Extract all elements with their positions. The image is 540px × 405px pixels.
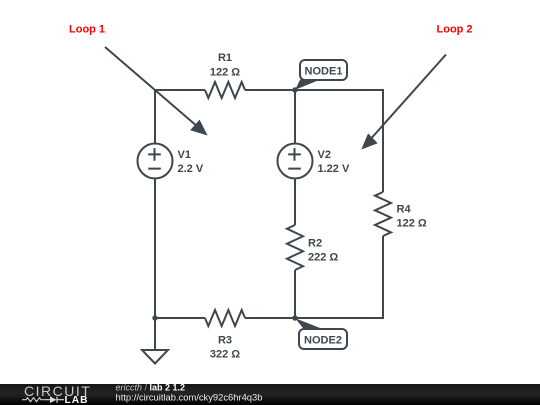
svg-text:222 Ω: 222 Ω [308,252,338,264]
annotation Loop 1 arrow [105,47,208,136]
resistor R2 [287,225,338,270]
annotation Loop 2 arrow [361,55,446,150]
node junction dot NODE2 [292,315,297,320]
wire top-right segment + right upper [245,90,383,192]
svg-text:R3: R3 [218,335,232,347]
footer bar [0,384,540,405]
wire bottom-left segment + left lower [155,179,205,319]
node NODE1 callout [295,60,347,90]
svg-text:122 Ω: 122 Ω [397,218,427,230]
node junction dot at ground [152,315,157,320]
svg-text:Loop 2: Loop 2 [437,24,473,36]
wire middle vertical lower [294,270,296,318]
resistor R4 [375,192,427,236]
voltage source V2 [278,144,350,179]
node NODE2 callout [295,318,347,349]
svg-text:R1: R1 [218,52,232,64]
footer CircuitLab logo wordmark [22,383,91,405]
node junction dot NODE1 [292,87,297,92]
svg-text:R4: R4 [397,204,412,216]
logo diode [46,397,64,403]
wire left upper + top-left segment [155,90,205,144]
ground [142,350,168,364]
svg-text:322 Ω: 322 Ω [210,349,240,361]
wire ground stub [154,318,156,350]
resistor R3 [205,310,245,361]
svg-text:http://circuitlab.com/cky92c6h: http://circuitlab.com/cky92c6hr4q3b [116,392,263,403]
resistor R1 [205,52,245,98]
svg-text:2.2 V: 2.2 V [178,163,204,175]
wire middle vertical upper [294,90,296,144]
svg-text:NODE2: NODE2 [304,335,342,347]
svg-text:NODE1: NODE1 [305,66,343,78]
wire right lower + bottom-right segment [245,236,383,318]
svg-text:LAB: LAB [65,395,89,405]
logo resistor zigzag [22,398,46,402]
svg-text:V1: V1 [178,149,191,161]
svg-text:Loop 1: Loop 1 [69,24,105,36]
svg-text:V2: V2 [318,149,331,161]
wire middle vertical mid [294,179,296,226]
svg-text:R2: R2 [308,238,322,250]
svg-text:122 Ω: 122 Ω [210,67,240,79]
svg-text:1.22 V: 1.22 V [318,163,350,175]
footer credits line [116,383,263,403]
voltage source V1 [138,144,204,179]
